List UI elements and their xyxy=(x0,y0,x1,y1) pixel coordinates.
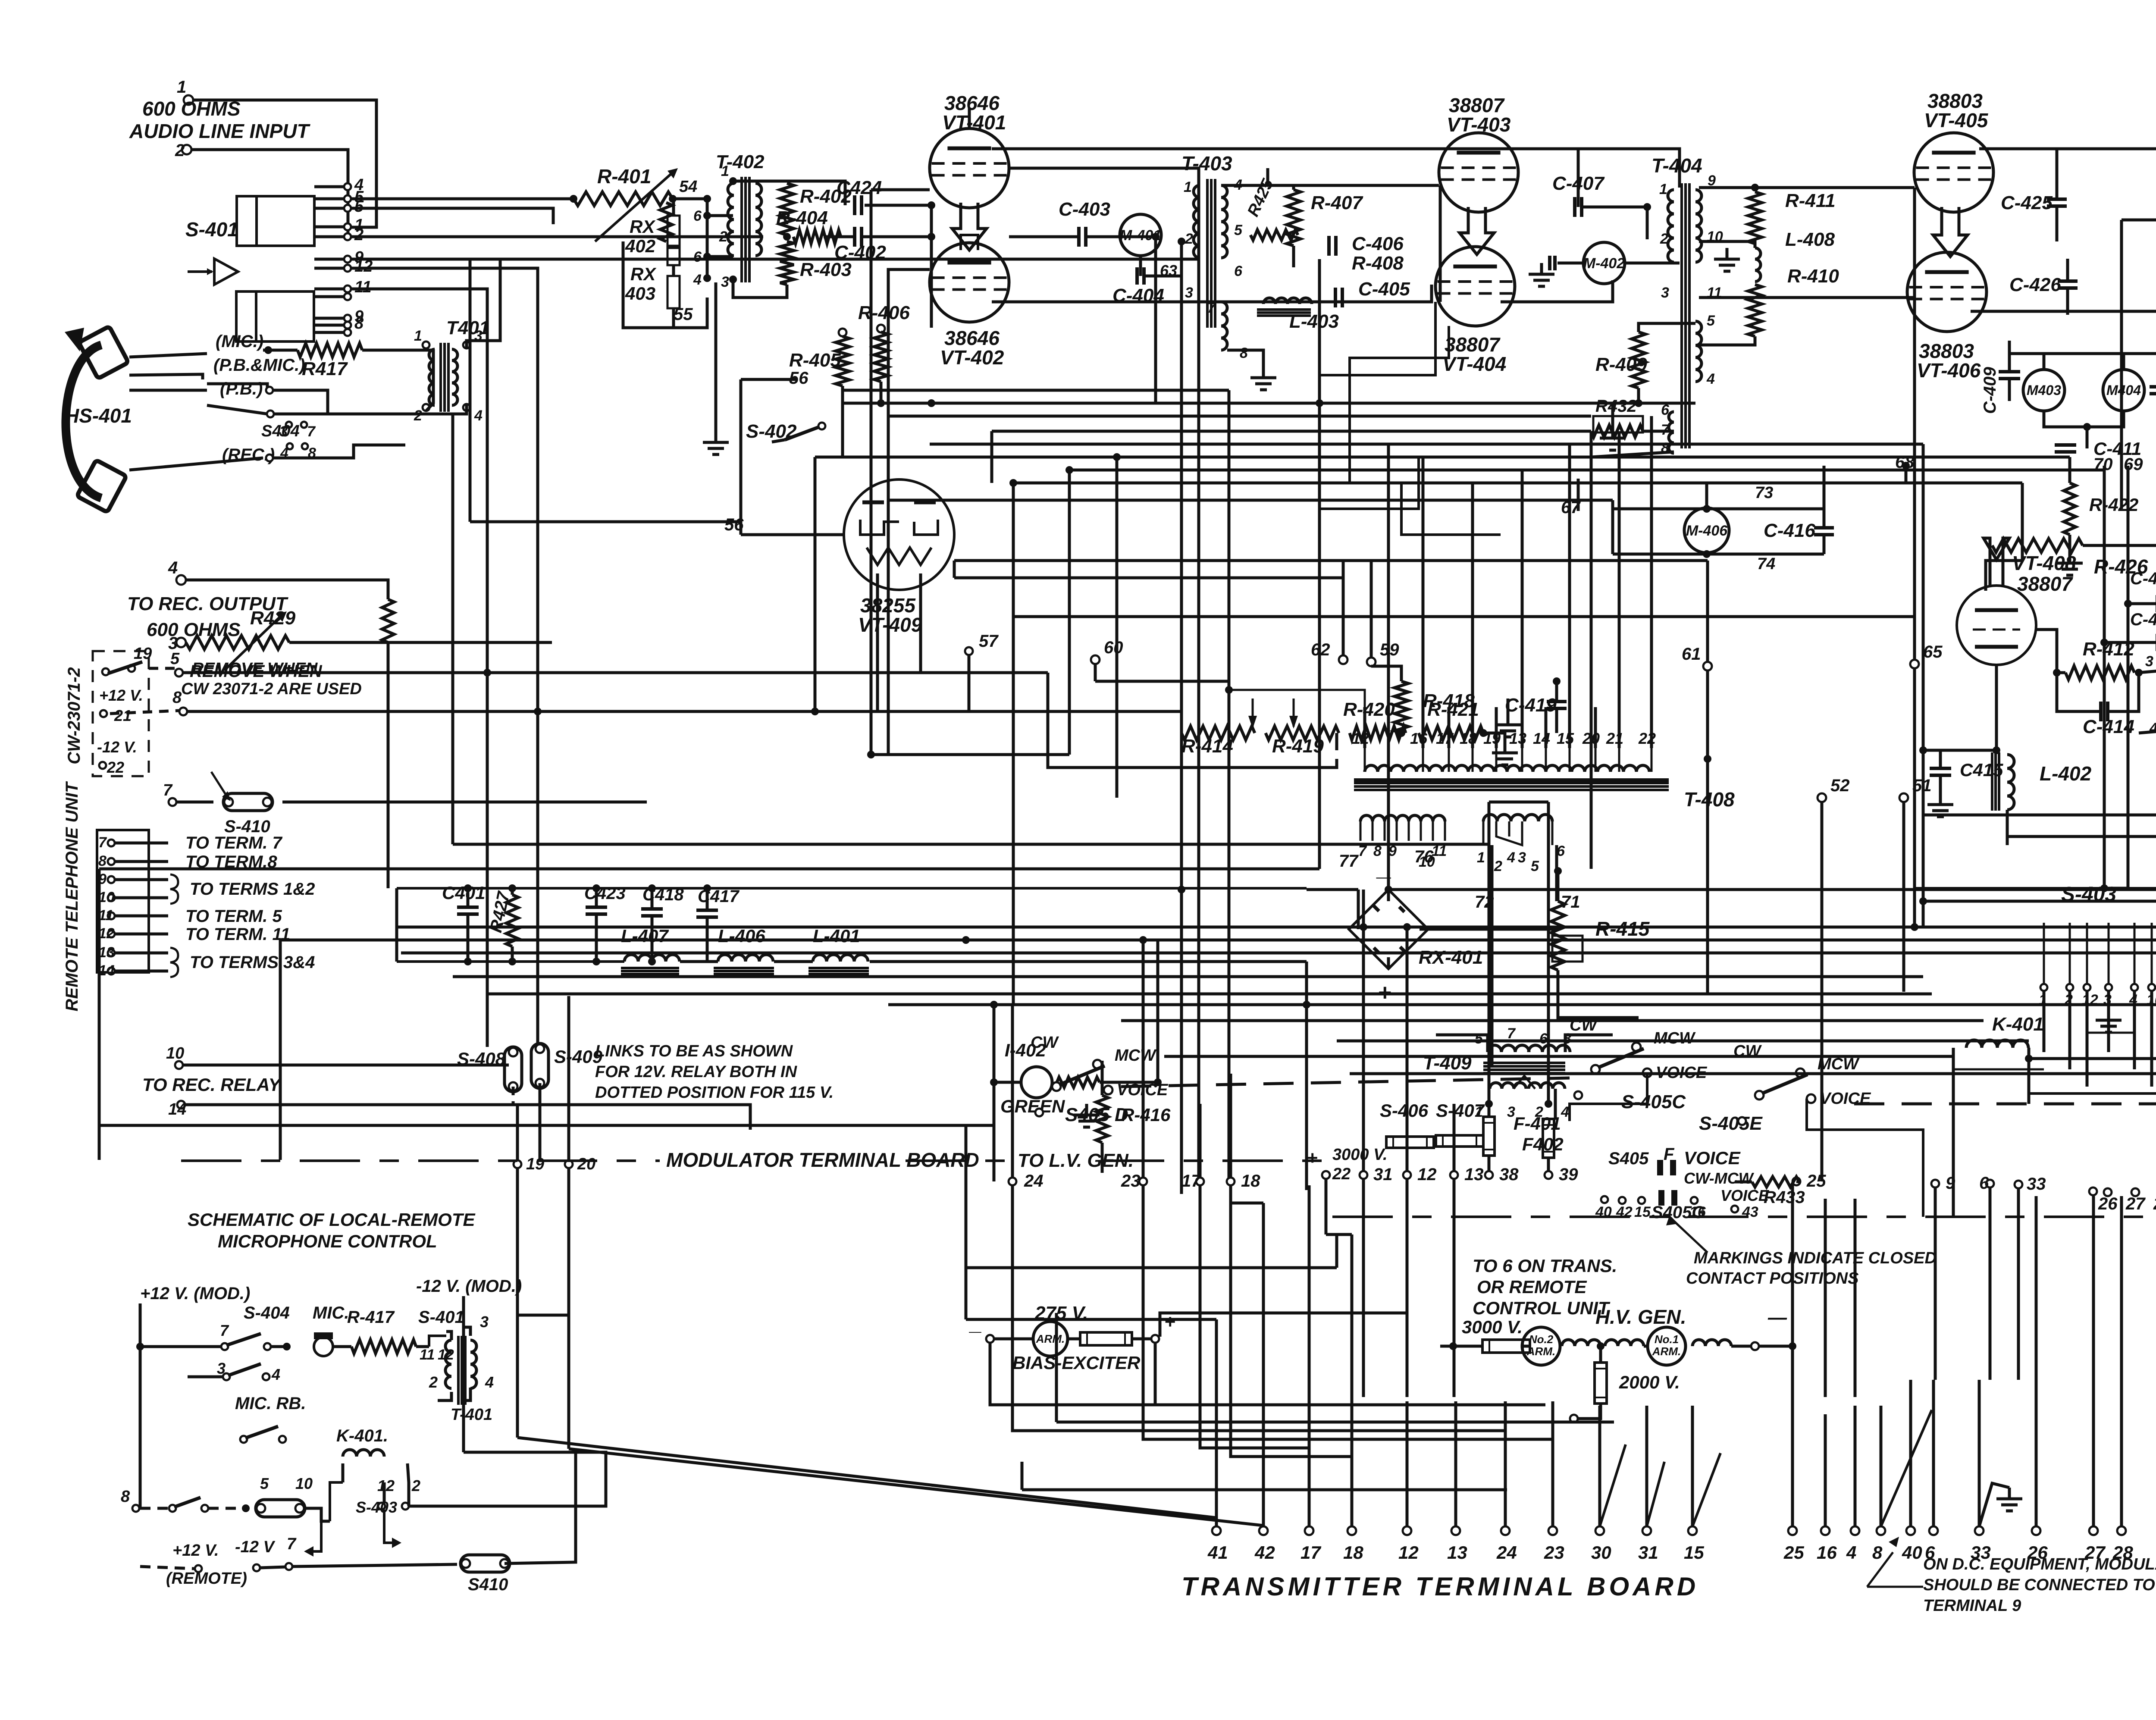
svg-text:21: 21 xyxy=(114,707,132,724)
wire xyxy=(706,917,709,962)
wire xyxy=(1598,1406,1601,1526)
label 52 xyxy=(1818,793,1826,802)
wire xyxy=(1939,750,1942,768)
wire xyxy=(469,259,472,522)
terminal 19 xyxy=(514,1160,521,1168)
junction xyxy=(990,1078,998,1086)
board terminal 26 xyxy=(2104,1188,2112,1196)
wire xyxy=(304,1508,330,1521)
wire xyxy=(1156,940,1159,1082)
term hv end xyxy=(1751,1342,1759,1350)
svg-text:TO TERM. 11: TO TERM. 11 xyxy=(185,925,290,944)
wire xyxy=(2035,1380,2038,1526)
term 8b xyxy=(132,1505,139,1512)
wire xyxy=(1854,1199,1857,1397)
wire xyxy=(1387,444,1390,890)
svg-text:17: 17 xyxy=(1436,730,1454,747)
resistor R-404 xyxy=(793,230,841,244)
svg-text:2: 2 xyxy=(414,407,422,424)
junction mic xyxy=(283,1343,291,1350)
rectifier RX-401 xyxy=(1349,890,1428,969)
wire xyxy=(1502,149,1680,188)
wire xyxy=(314,258,344,261)
transmitter terminal 6 xyxy=(1929,1526,1938,1535)
wire xyxy=(1913,668,1916,927)
wire xyxy=(1483,733,1505,742)
svg-text:LINKS TO BE AS SHOWN: LINKS TO BE AS SHOWN xyxy=(595,1042,793,1060)
svg-text:REMOTE TELEPHONE UNIT: REMOTE TELEPHONE UNIT xyxy=(63,781,81,1012)
svg-text:C424: C424 xyxy=(837,177,882,198)
wire xyxy=(888,415,1591,418)
small cap xyxy=(1548,256,1551,270)
wire xyxy=(1824,1199,1827,1397)
sw 12 2 xyxy=(378,1503,385,1510)
svg-text:19: 19 xyxy=(526,1155,544,1173)
switch S-401 contact 5 xyxy=(344,205,351,212)
wire xyxy=(516,1168,519,1438)
wire xyxy=(1557,970,1560,996)
junction xyxy=(1225,686,1233,694)
node 4 terminal xyxy=(176,575,186,585)
wire xyxy=(279,940,282,1160)
svg-text:CW 23071-2 ARE USED: CW 23071-2 ARE USED xyxy=(181,680,362,698)
wire xyxy=(2044,411,2124,427)
wire xyxy=(865,204,931,207)
wire xyxy=(1978,1380,1981,1526)
wire xyxy=(1262,1423,1265,1526)
wire xyxy=(263,349,298,352)
svg-text:R432: R432 xyxy=(1595,397,1637,416)
lamp I-402 xyxy=(1021,1067,1052,1098)
wire xyxy=(966,1318,1216,1321)
wire xyxy=(567,996,570,1160)
node 1 terminal xyxy=(184,95,193,105)
wire xyxy=(351,235,763,238)
capacitor C-409 xyxy=(1999,370,2020,373)
wire xyxy=(1558,996,1639,1018)
junction xyxy=(1152,233,1159,241)
wire xyxy=(2068,457,2071,483)
svg-text:14: 14 xyxy=(1533,730,1550,747)
junction xyxy=(1360,923,1367,931)
board terminal 33 xyxy=(2015,1181,2022,1188)
wire xyxy=(1570,1073,1647,1121)
junction xyxy=(136,1343,144,1350)
svg-text:T-404: T-404 xyxy=(1651,154,1702,177)
wire xyxy=(1440,1345,1482,1348)
switch row3 xyxy=(240,1436,247,1443)
switch row2 xyxy=(223,1373,230,1380)
wire xyxy=(416,1345,429,1348)
wire xyxy=(2103,466,2106,642)
wire xyxy=(505,1452,576,1563)
wire xyxy=(1699,186,1755,189)
wire xyxy=(1292,246,1295,267)
wire xyxy=(1650,707,1653,748)
wire xyxy=(176,801,213,804)
wire xyxy=(1611,403,1614,427)
caps S405G xyxy=(1658,1190,1664,1206)
wire xyxy=(930,205,933,328)
wire xyxy=(342,1463,345,1482)
svg-text:R-406: R-406 xyxy=(858,302,910,323)
wire xyxy=(1305,962,1308,1190)
svg-text:R-419: R-419 xyxy=(1272,736,1324,757)
wire xyxy=(1439,185,1442,302)
fuse 3000V xyxy=(1482,1340,1530,1353)
wire xyxy=(1234,184,1439,187)
board lineb xyxy=(906,1159,1009,1162)
switch S-401 contact 8 xyxy=(344,322,351,329)
terminal 10 xyxy=(108,894,115,901)
wire xyxy=(1491,845,1494,1065)
svg-text:R429: R429 xyxy=(250,608,296,629)
wire xyxy=(672,308,675,328)
svg-text:5: 5 xyxy=(1707,313,1715,329)
svg-text:CW: CW xyxy=(1031,1034,1059,1052)
contact rec xyxy=(266,454,273,461)
cathode arrow xyxy=(952,203,987,250)
S-403 arrows xyxy=(2044,926,2057,928)
switch S-401 contact x xyxy=(344,293,351,300)
svg-text:VT-401: VT-401 xyxy=(942,111,1006,134)
wire xyxy=(2056,149,2059,199)
wire xyxy=(314,267,344,270)
wire xyxy=(567,1168,570,1449)
coil hv2 xyxy=(1605,1340,1644,1346)
svg-text:R-422: R-422 xyxy=(2089,495,2138,515)
junction xyxy=(1303,1001,1310,1009)
svg-text:12: 12 xyxy=(1417,1165,1437,1184)
wire xyxy=(841,386,844,403)
resistor R427 xyxy=(506,895,518,946)
terminal 7 xyxy=(108,840,115,846)
svg-text:15: 15 xyxy=(1634,1204,1651,1220)
svg-text:8: 8 xyxy=(98,853,107,869)
node 62 xyxy=(1339,655,1347,664)
svg-text:5: 5 xyxy=(1475,1031,1483,1047)
wire xyxy=(115,915,168,918)
term 2000 xyxy=(1570,1415,1578,1422)
wire xyxy=(351,268,538,1047)
svg-text:16: 16 xyxy=(1817,1542,1837,1563)
svg-text:8: 8 xyxy=(1240,345,1248,361)
wire xyxy=(1582,207,1647,239)
slant wires xyxy=(1600,1444,1626,1526)
junction xyxy=(867,751,875,758)
transmitter terminal 12 xyxy=(1403,1526,1411,1535)
wire xyxy=(1922,750,1925,901)
wire xyxy=(115,860,168,863)
wire xyxy=(1388,888,1419,891)
svg-text:L-406: L-406 xyxy=(718,926,765,946)
svg-text:S-403: S-403 xyxy=(356,1498,397,1516)
svg-text:TO TERMS 1&2: TO TERMS 1&2 xyxy=(190,880,315,899)
wire xyxy=(187,710,604,713)
terminal 11 xyxy=(108,912,115,919)
wire xyxy=(2066,288,2069,315)
svg-text:2: 2 xyxy=(411,1477,420,1494)
svg-text:DOTTED POSITION FOR 115 V.: DOTTED POSITION FOR 115 V. xyxy=(595,1084,834,1102)
junction xyxy=(703,195,711,203)
wire xyxy=(115,970,168,973)
switch 19 xyxy=(102,668,109,675)
svg-text:MIC. RB.: MIC. RB. xyxy=(235,1394,306,1413)
ground xyxy=(1540,263,1543,274)
term minus bias xyxy=(986,1335,994,1343)
svg-text:VT-405: VT-405 xyxy=(1924,109,1989,132)
wire xyxy=(1939,775,1942,793)
wire xyxy=(1932,1380,1935,1526)
junction xyxy=(483,669,491,677)
wire xyxy=(1594,707,1597,748)
capacitor C-403 xyxy=(1077,227,1081,247)
switch S-402 xyxy=(785,427,819,440)
terminal 8 xyxy=(108,858,115,865)
wire xyxy=(1471,707,1474,748)
svg-text:5: 5 xyxy=(1234,222,1243,238)
board terminal 17 xyxy=(1196,1178,1204,1185)
transformer T-403 xyxy=(1206,179,1209,328)
svg-text:C-402: C-402 xyxy=(834,242,886,263)
wire xyxy=(1507,699,1510,714)
wire xyxy=(446,1332,451,1340)
node 8 term xyxy=(179,708,187,715)
wire xyxy=(1448,707,1451,748)
svg-text:5: 5 xyxy=(1531,858,1539,874)
svg-text:C-403: C-403 xyxy=(1059,199,1110,220)
wire xyxy=(2068,991,2071,1069)
wire xyxy=(395,888,398,962)
svg-text:5: 5 xyxy=(260,1475,269,1492)
svg-text:13: 13 xyxy=(1464,1165,1484,1184)
svg-text:VT-404: VT-404 xyxy=(1442,353,1506,375)
capacitor C-425 xyxy=(2047,197,2067,201)
wire xyxy=(314,295,344,298)
capacitor C418 xyxy=(641,907,663,911)
wire xyxy=(1902,802,1905,992)
node 65 xyxy=(1910,660,1919,668)
wire xyxy=(930,443,1923,446)
wire xyxy=(2133,991,2136,1069)
wire xyxy=(1591,431,1674,457)
svg-text:43: 43 xyxy=(1742,1204,1758,1220)
wire xyxy=(2043,354,2046,369)
svg-text:CW-23071-2: CW-23071-2 xyxy=(65,667,84,764)
svg-text:R-410: R-410 xyxy=(1787,266,1839,287)
capacitor C-405 xyxy=(1334,288,1337,307)
svg-text:-12 V. (MOD.): -12 V. (MOD.) xyxy=(416,1277,522,1296)
svg-text:No.1: No.1 xyxy=(1655,1333,1679,1346)
wire xyxy=(1422,707,1425,748)
wire xyxy=(2092,1380,2095,1526)
svg-text:T-403: T-403 xyxy=(1181,152,1232,175)
wire xyxy=(186,580,388,599)
svg-text:T-408: T-408 xyxy=(1684,788,1735,811)
resistor R433 xyxy=(1752,1177,1799,1187)
ground small xyxy=(1726,248,1729,259)
wire xyxy=(1160,1313,1407,1337)
wire xyxy=(2007,835,2156,838)
wire xyxy=(1139,256,1142,276)
svg-text:MCW: MCW xyxy=(1115,1046,1157,1065)
svg-text:2: 2 xyxy=(1494,858,1502,874)
board terminal 39 xyxy=(1545,1171,1552,1179)
terminal 9 xyxy=(108,876,115,883)
wire xyxy=(1611,500,1614,554)
wire xyxy=(604,710,877,713)
board terminal 24 xyxy=(1009,1178,1016,1185)
junction xyxy=(534,708,542,715)
svg-text:C-421: C-421 xyxy=(2130,569,2156,588)
tube VT-404 xyxy=(1435,247,1515,326)
link S-409 xyxy=(531,1043,548,1088)
transmitter terminal 41 xyxy=(1212,1526,1221,1535)
wire xyxy=(1012,617,1015,1005)
wire xyxy=(1909,1380,1912,1526)
svg-text:R-407: R-407 xyxy=(1311,192,1363,213)
svg-text:VOICE: VOICE xyxy=(1720,1187,1769,1204)
wire xyxy=(1555,681,1558,702)
wire xyxy=(1068,1338,1080,1341)
wire xyxy=(1471,483,1474,707)
resistor R-406 xyxy=(877,325,885,332)
wire xyxy=(2035,1196,2038,1380)
node 57 xyxy=(965,647,973,655)
wire xyxy=(99,868,1319,871)
transmitter terminal 42 xyxy=(1259,1526,1268,1535)
terminals 40 42 15 16 43 xyxy=(1601,1196,1608,1203)
svg-text:AUDIO LINE INPUT: AUDIO LINE INPUT xyxy=(129,120,310,142)
wire xyxy=(207,405,267,414)
switch S-401 lower wafer xyxy=(236,291,314,341)
wire xyxy=(470,520,741,523)
wire xyxy=(569,1449,1263,1526)
svg-text:17: 17 xyxy=(1181,1172,1201,1191)
potentiometer R429 xyxy=(186,636,289,649)
wire xyxy=(672,199,675,216)
term 22 xyxy=(99,762,106,769)
wire xyxy=(1308,1423,1311,1526)
board linec xyxy=(1104,1159,1332,1162)
T-402 pin 1 xyxy=(729,177,737,185)
wire xyxy=(714,282,718,431)
wire xyxy=(1565,1035,1613,1052)
wire xyxy=(1228,699,1231,1184)
svg-text:S-407: S-407 xyxy=(1436,1100,1485,1121)
S404a contacts xyxy=(286,422,292,428)
wire xyxy=(1180,241,1183,711)
svg-text:30: 30 xyxy=(1591,1542,1611,1563)
junction xyxy=(2100,639,2108,646)
svg-text:600 OHMS: 600 OHMS xyxy=(142,97,241,120)
resistor R-418 xyxy=(1395,681,1408,733)
svg-text:RX-401: RX-401 xyxy=(1419,947,1483,968)
wire xyxy=(1568,444,1571,707)
wire xyxy=(1796,1181,1799,1182)
wire xyxy=(1952,1048,1955,1061)
terms remote xyxy=(195,1565,202,1572)
wire xyxy=(2057,673,2101,711)
svg-text:M-402: M-402 xyxy=(1583,255,1625,272)
node 5 term xyxy=(175,669,183,677)
junction xyxy=(1902,462,1910,470)
junction xyxy=(2083,423,2091,431)
svg-text:TO L.V. GEN.: TO L.V. GEN. xyxy=(1018,1150,1134,1171)
term 21 xyxy=(100,710,107,717)
resistor R-405 xyxy=(839,329,846,336)
svg-text:K-401.: K-401. xyxy=(336,1426,388,1445)
transformer T-408 secondary A xyxy=(1360,815,1445,821)
wire xyxy=(140,1566,194,1569)
svg-text:-12 V.: -12 V. xyxy=(97,738,137,756)
wire xyxy=(1325,1179,1328,1234)
resistor R-403 xyxy=(780,241,794,285)
wire xyxy=(1557,871,1560,901)
wire xyxy=(1268,185,1294,190)
wire xyxy=(2139,670,2156,673)
wire xyxy=(1011,1005,1014,1178)
transmitter terminal 30 xyxy=(1595,1526,1604,1535)
wire xyxy=(1639,388,1695,403)
wire xyxy=(129,354,207,357)
wire xyxy=(1200,1185,1309,1526)
board terminal 31 xyxy=(1360,1171,1367,1179)
wire xyxy=(1691,1406,1694,1526)
wire xyxy=(1555,708,1558,733)
wire xyxy=(1823,466,1826,509)
T401 pin 2 xyxy=(423,404,429,411)
junction xyxy=(1545,1100,1552,1108)
svg-text:R-417: R-417 xyxy=(347,1308,395,1327)
ground xyxy=(1939,793,1942,805)
wire xyxy=(953,561,956,578)
svg-text:VT-406: VT-406 xyxy=(1917,359,1981,382)
svg-text:BIAS-EXCITER: BIAS-EXCITER xyxy=(1012,1353,1141,1373)
svg-text:ARM.: ARM. xyxy=(1526,1345,1555,1358)
wire xyxy=(1009,168,1199,185)
svg-text:—: — xyxy=(1767,1307,1787,1328)
svg-text:403: 403 xyxy=(625,283,655,304)
wire xyxy=(1755,296,1915,299)
wire xyxy=(1229,1074,1232,1178)
svg-text:S-406: S-406 xyxy=(1380,1100,1429,1121)
resistor R-426 xyxy=(1992,539,2083,552)
wire xyxy=(539,1083,542,1104)
wire xyxy=(183,671,487,674)
svg-text:4: 4 xyxy=(474,407,483,424)
wire xyxy=(1436,1035,1488,1052)
wire xyxy=(1618,707,1621,748)
S-405E pivot xyxy=(1738,1117,1746,1125)
coil L-401 xyxy=(813,955,868,962)
svg-text:26: 26 xyxy=(2098,1194,2118,1213)
wire xyxy=(1406,1401,1409,1526)
switch S-401 contact x xyxy=(344,329,351,336)
wire xyxy=(517,1314,569,1317)
T401 pin 3 xyxy=(463,341,470,348)
handset HS-401 xyxy=(66,345,101,498)
svg-text:7: 7 xyxy=(287,1535,297,1553)
transmitter terminal 15 xyxy=(1688,1526,1697,1535)
wire xyxy=(954,559,1708,562)
wire xyxy=(1599,1346,1602,1363)
svg-text:C-422: C-422 xyxy=(2130,610,2156,629)
wire xyxy=(2128,602,2156,605)
wire xyxy=(2092,1196,2095,1380)
T401 pin 1 xyxy=(423,341,429,348)
svg-text:7: 7 xyxy=(1207,300,1216,316)
